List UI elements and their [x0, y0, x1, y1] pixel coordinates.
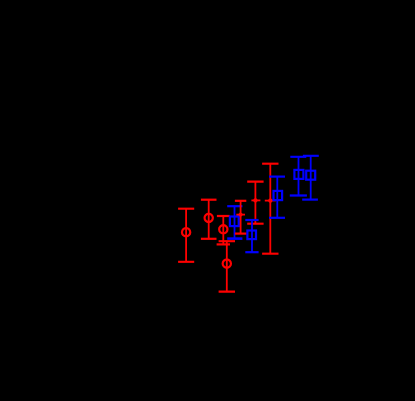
red circle point C4 error bar [219, 241, 235, 291]
red diamond point D3 error bars [235, 201, 246, 234]
red diamond point D3 marker [238, 212, 244, 218]
blue square point S5 marker [306, 171, 315, 180]
blue square point S5 error bar [302, 156, 319, 200]
red diamond point D1 error bars [247, 182, 263, 224]
blue square point S1 marker [230, 217, 239, 227]
red circle point C2 marker [205, 214, 213, 222]
red diamond point D1 marker [252, 197, 258, 203]
blue square point S1 error bar [227, 206, 242, 238]
red circle point C4 marker [223, 259, 231, 267]
red circle point C1 marker [182, 228, 190, 236]
red diamond point D2 error bars [262, 164, 278, 254]
blue square point S3 marker [274, 191, 283, 200]
blue square point S2 error bar [245, 220, 258, 252]
red circle point C3 marker [219, 225, 227, 233]
red circle point C3 error bar [217, 216, 230, 244]
red diamond point D2 marker [267, 198, 273, 204]
blue square point S3 error bar [269, 177, 285, 218]
blue square point S2 marker [247, 231, 256, 240]
blue square point S4 marker [294, 170, 303, 179]
blue square point S4 error bar [290, 157, 307, 196]
red circle point C1 error bar [178, 209, 194, 262]
red circle point C2 error bar [201, 200, 217, 239]
